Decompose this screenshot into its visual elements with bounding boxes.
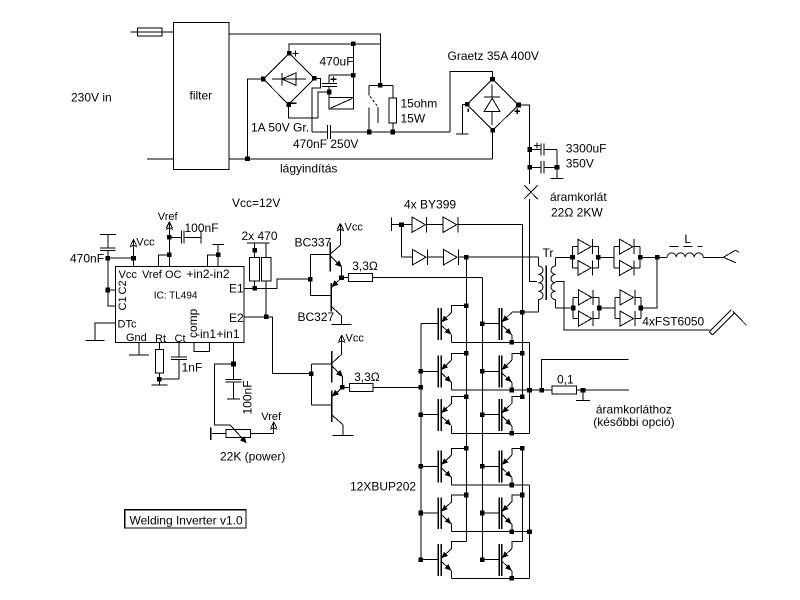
svg-text:2x 470: 2x 470	[242, 229, 278, 243]
node junction emitter rail row3 col2	[510, 431, 515, 436]
svg-text:Vcc=12V: Vcc=12V	[232, 196, 280, 210]
wire softstart to Graetz AC1	[450, 71, 493, 132]
ground Gnd pin	[129, 343, 149, 356]
svg-text:Vref: Vref	[261, 411, 282, 423]
label 2x 470	[242, 229, 278, 243]
capacitor C 1nF Ct	[171, 343, 187, 380]
label 15ohm	[401, 97, 438, 111]
wire D1-D2	[426, 224, 443, 226]
label 1nF	[182, 361, 203, 375]
label 1A 50V Gr.	[251, 120, 309, 134]
node junction gate bus col2 row1	[480, 321, 485, 326]
label Vcc driver2	[346, 333, 365, 345]
node junction col2 row4 collector	[520, 446, 525, 451]
bridge 1A inner diode	[272, 73, 306, 85]
pin label +in2-in2	[187, 267, 230, 281]
node junction col1 row4 collector	[464, 446, 469, 451]
svg-text:C2: C2	[117, 280, 129, 294]
node junction driver2 base	[309, 371, 314, 376]
resistor Rt	[155, 343, 163, 380]
node junction rect1 out	[638, 255, 643, 260]
node junction col2 row5 collector	[520, 493, 525, 498]
node junction Vcc decoupling	[131, 256, 136, 261]
svg-text:470uF: 470uF	[320, 54, 354, 68]
wire col1 row5 collector	[452, 495, 467, 502]
transistor IGBT Q17 BUP202 col2 row1	[482, 308, 512, 340]
diode pair FST6050 B	[614, 239, 640, 275]
wire BC337 base	[310, 254, 330, 256]
transistor Q3 collector	[332, 336, 342, 363]
wire col1 row3 collector	[452, 397, 467, 404]
svg-text:filter: filter	[190, 89, 213, 103]
wire E1 to driver1 base	[255, 279, 311, 288]
transformer T1 core	[545, 266, 547, 301]
transistor Q2 collector	[331, 306, 341, 324]
wire softstart rail right	[331, 131, 451, 133]
node junction coil top right	[351, 73, 356, 78]
node junction driver2 out	[340, 385, 345, 390]
wire col1 row1 collector	[452, 306, 467, 313]
diode pair FST6050 C	[573, 290, 599, 326]
wire emitter rail row1	[452, 341, 530, 343]
ground driver1	[332, 324, 352, 326]
transistor IGBT Q15 BUP202 col1 row5	[421, 497, 452, 529]
wire col2 row5 collector	[512, 495, 523, 502]
svg-text:12XBUP202: 12XBUP202	[350, 479, 416, 493]
svg-text:15W: 15W	[401, 112, 426, 126]
capacitor C 470nF decoupling	[100, 235, 116, 258]
wire emitter rail row4	[452, 484, 530, 486]
node Graetz bottom vertex	[491, 128, 496, 133]
inductor L	[667, 253, 703, 257]
wire emitter link upper	[529, 342, 531, 433]
capacitor C 470uF plates	[322, 84, 337, 87]
wire col2 row3 collector	[512, 397, 523, 404]
label Vcc=12V	[232, 196, 280, 210]
wire Rt to Ct	[159, 378, 179, 380]
node aux bridge top vertex	[287, 51, 292, 56]
node junction Vref step	[167, 252, 172, 257]
node junction gate bus col2 row4	[480, 464, 485, 469]
label 350V	[566, 157, 594, 171]
wire aux bridge AC1	[248, 79, 264, 159]
wire comp to -in1 jumper	[194, 343, 209, 352]
capacitor C 470nF 250V plates	[328, 125, 331, 139]
label Graetz minus tick	[467, 109, 469, 112]
wire emitter rail row6	[452, 577, 530, 579]
node junction gate bus col1 row4	[419, 464, 424, 469]
wire E2 to driver2 base	[266, 317, 311, 374]
capacitor C 3300uF lower	[530, 161, 557, 173]
svg-text:470nF 250V: 470nF 250V	[293, 137, 358, 151]
wire collector bus col2 lower	[521, 448, 523, 541]
wire emitter link lower	[529, 485, 531, 578]
svg-text:Ct: Ct	[175, 333, 186, 345]
wire emitter rail row3	[452, 432, 530, 434]
wire col1 row5 emitter	[451, 524, 453, 532]
capacitor C 100nF vref	[169, 230, 201, 243]
label 470uF plus	[331, 76, 337, 82]
svg-text:470nF: 470nF	[70, 251, 104, 265]
wire pot right to Vref	[251, 422, 278, 434]
pin label C2	[117, 280, 129, 294]
node junction driver1 out	[339, 275, 344, 280]
wire col2 row3 emitter	[511, 426, 513, 434]
bridge rectifier 1A 50V Gr. diamond	[263, 53, 314, 104]
terminal work clamp	[709, 310, 746, 335]
wire col2 row2 collector	[512, 353, 523, 360]
wire BC327 base	[310, 294, 331, 296]
label aramkorlathoz	[596, 402, 672, 416]
pin label Ct	[175, 333, 186, 345]
node junction Rt Ct	[157, 377, 162, 382]
svg-text:22Ω 2KW: 22Ω 2KW	[551, 205, 603, 219]
label IC: TL494	[154, 291, 198, 302]
transistor Q1 BC337 body	[329, 242, 331, 272]
wire emitter rail row2	[452, 389, 542, 391]
wire C2 C1 loop	[108, 258, 116, 306]
pin Vref OC step	[159, 255, 170, 267]
fuse F1	[138, 28, 174, 36]
ground shunt	[576, 390, 590, 401]
label 100nF	[185, 221, 219, 235]
node junction emitter link row5	[527, 529, 532, 534]
node junction primary bottom row1	[520, 310, 525, 315]
node junction shunt right	[581, 388, 586, 393]
ground Rt	[152, 379, 168, 385]
pin label OC	[165, 269, 182, 281]
pin Vcc stub with arrow	[130, 239, 137, 266]
wire cap minus to bridge minus	[318, 92, 329, 118]
terminal bar BY399 input	[392, 218, 402, 231]
svg-text:BC337: BC337	[295, 235, 332, 249]
svg-text:1nF: 1nF	[182, 361, 203, 375]
node junction gate bus col1 row6	[419, 557, 424, 562]
svg-text:4xFST6050: 4xFST6050	[642, 314, 704, 328]
relay coil K1 box	[329, 75, 353, 109]
svg-text:3,3Ω: 3,3Ω	[354, 370, 380, 384]
label kesobbi opcio	[593, 415, 674, 429]
node junction gate bus col2 row3	[480, 412, 485, 417]
pin label E1	[229, 282, 244, 296]
transistor IGBT Q22 BUP202 col2 row6	[482, 544, 512, 576]
node junction in2 step	[216, 252, 221, 257]
wire rect1 link	[598, 256, 614, 258]
node junction plus wire to coil	[351, 41, 356, 46]
node junction BY399 input	[399, 222, 404, 227]
label 3300uF plus	[534, 143, 540, 149]
wire col2 row2 emitter	[511, 383, 513, 391]
resistor 470 left of 2x470	[250, 250, 260, 288]
label Vcc driver1	[345, 221, 364, 233]
wire softstart rail left	[312, 131, 327, 133]
svg-text:350V: 350V	[566, 157, 594, 171]
potentiometer 22K body	[226, 430, 251, 438]
node Graetz right vertex	[516, 103, 521, 108]
label 230V in	[71, 91, 112, 105]
wire BC337b base	[311, 363, 331, 365]
wire L to torch	[703, 256, 723, 258]
label lagyinditas	[280, 162, 337, 176]
node junction cap1 3300uF	[527, 147, 532, 152]
diode D3 BY399	[402, 249, 428, 265]
label Vref arrow	[158, 211, 179, 223]
svg-text:DTc: DTc	[118, 319, 137, 331]
wire col2 row4 collector	[512, 448, 523, 455]
diode pair FST6050 D	[615, 290, 641, 326]
relay contact S1	[369, 85, 378, 132]
diode pair FST6050 A	[573, 239, 599, 275]
wire mains L lead	[131, 31, 138, 33]
wire col2 row1 collector	[511, 311, 513, 313]
svg-text:Vcc: Vcc	[136, 237, 155, 249]
pin label C1	[117, 296, 129, 310]
transistor Q3 emitter	[332, 366, 342, 387]
node junction relay top	[378, 83, 383, 88]
node junction rect1 mid	[596, 255, 601, 260]
label 4xFST6050	[642, 314, 704, 328]
bridge rectifier Graetz 35A 400V diamond	[467, 79, 518, 130]
node junction caps right	[555, 165, 560, 170]
wire aux bridge AC2 loop	[312, 78, 320, 132]
node junction relay contact bottom	[367, 130, 372, 135]
node junction col1 row2 collector	[464, 351, 469, 356]
wire BY399 row1 out	[458, 225, 523, 313]
node Graetz left vertex	[465, 102, 470, 107]
svg-text:OC: OC	[165, 269, 182, 281]
wire rect2 link	[599, 307, 615, 309]
wire col2 row1 emitter	[511, 335, 513, 343]
wire 2x470 top bar	[247, 243, 270, 257]
wire collector bus col2 upper	[521, 312, 523, 396]
current limiter X aramkorlat	[524, 185, 537, 257]
wire gate bus col1	[420, 324, 422, 560]
wire driver2 base bar	[310, 364, 312, 405]
svg-text:(későbbi opció): (későbbi opció)	[593, 415, 674, 429]
pin label DTc	[118, 319, 137, 331]
wire col1 row6 collector	[452, 542, 467, 549]
transistor IGBT Q13 BUP202 col1 row3	[421, 399, 452, 431]
svg-text:100nF: 100nF	[241, 380, 255, 414]
wire secondary bottom out	[556, 307, 574, 309]
label 100nF rotated	[241, 380, 255, 414]
capacitor C 3300uF upper	[530, 143, 557, 155]
resistor 470 right of 2x470	[262, 257, 271, 317]
svg-text:22K (power): 22K (power)	[220, 450, 285, 464]
ground caps 3300uF	[551, 178, 564, 180]
node junction rect2 mid	[597, 306, 602, 311]
svg-text:4x BY399: 4x BY399	[404, 197, 456, 211]
title box Welding Inverter v1.0	[125, 510, 246, 528]
label 470nF 250V	[293, 137, 358, 151]
wire col1 row4 collector	[452, 448, 467, 455]
wire E1 stub	[244, 287, 255, 289]
label 22K (power)	[220, 450, 285, 464]
transistor IGBT Q21 BUP202 col2 row5	[482, 497, 512, 529]
node junction E2	[264, 315, 269, 320]
node aux bridge left vertex	[261, 77, 266, 82]
node junction gate bus col1 row5	[419, 511, 424, 516]
pin in2 step	[208, 255, 219, 267]
ground Graetz left vertex	[456, 104, 469, 134]
svg-text:Rt: Rt	[155, 333, 166, 345]
node junction rect1 in	[570, 255, 575, 260]
wire Graetz plus down	[519, 105, 530, 184]
ground DTc	[86, 323, 116, 340]
node junction emitter rail row5 col2	[510, 529, 515, 534]
transistor IGBT Q16 BUP202 col1 row6	[421, 544, 452, 576]
resistor 3.3ohm driver1	[342, 273, 406, 281]
svg-text:E2: E2	[229, 311, 244, 325]
label Tr	[543, 246, 554, 260]
pin label E2	[229, 311, 244, 325]
svg-text:E1: E1	[229, 282, 244, 296]
wire col2 row6 emitter	[511, 571, 513, 579]
wire DC plus down to center tap	[530, 257, 538, 281]
terminal torch electrode fork	[723, 250, 739, 263]
node junction rect2 out	[639, 306, 644, 311]
pin label comp	[186, 308, 200, 338]
transistor Q2 emitter	[331, 278, 341, 288]
wire pot left	[211, 427, 226, 439]
transistor Q4 collector	[332, 415, 343, 435]
svg-text:IC: TL494: IC: TL494	[154, 291, 198, 302]
svg-text:Tr: Tr	[543, 246, 554, 260]
node Graetz top vertex	[490, 77, 495, 82]
svg-text:1A 50V Gr.: 1A 50V Gr.	[251, 120, 309, 134]
node junction driver2 to gate bus	[419, 385, 424, 390]
diode D4 BY399	[444, 249, 459, 265]
wire col2 row4 emitter	[511, 478, 513, 486]
node junction gate bus col1 row2	[419, 369, 424, 374]
svg-text:Vref: Vref	[142, 269, 163, 281]
node junction shunt left	[539, 388, 544, 393]
node junction col1 row5 collector	[464, 493, 469, 498]
wire rect2 up to common	[641, 257, 657, 308]
wire driver1 base bar	[309, 255, 311, 296]
wire cap 470uF top lead	[328, 75, 330, 84]
label BC337	[295, 235, 332, 249]
label 470uF	[320, 54, 354, 68]
wire coil top	[329, 74, 353, 76]
label Welding Inverter v1.0	[130, 513, 243, 527]
pin label -in1	[196, 327, 216, 341]
node junction AC bottom to aux bridge	[245, 156, 250, 161]
transistor IGBT Q19 BUP202 col2 row3	[482, 399, 512, 431]
filter box	[173, 23, 229, 170]
node junction Vref to 100nF	[167, 235, 172, 240]
node junction E1	[252, 286, 257, 291]
potentiometer 22K wiper arrow	[230, 425, 246, 442]
wire +in1 down	[233, 343, 235, 365]
diode D2 BY399	[443, 217, 458, 233]
wire E2 stub	[244, 316, 266, 318]
wire Graetz AC2 from filter	[492, 130, 494, 158]
label L	[684, 232, 691, 246]
pin label Vcc	[119, 269, 138, 281]
node junction emitter rail row6 col2	[510, 576, 515, 581]
wire col1 row6 emitter	[451, 571, 453, 579]
label 15W	[401, 112, 426, 126]
node junction cap minus	[327, 90, 332, 95]
svg-text:Vcc: Vcc	[345, 221, 364, 233]
resistor 0,1 shunt	[542, 386, 583, 394]
svg-text:15ohm: 15ohm	[401, 97, 438, 111]
node junction rect2 in	[571, 306, 576, 311]
svg-text:áramkorlát: áramkorlát	[550, 190, 607, 204]
node junction col1 row1 collector	[464, 303, 469, 308]
wire cap 470uF bottom lead	[328, 86, 330, 92]
pin label +in1	[217, 327, 240, 341]
wire secondary center tap out	[556, 282, 710, 330]
label 470nF	[70, 251, 104, 265]
node junction 470 left top	[252, 248, 257, 253]
svg-text:100nF: 100nF	[185, 221, 219, 235]
wire in2 to rail bar	[213, 244, 224, 254]
node junction gate bus col1 row3	[419, 412, 424, 417]
power Vcc arrow driver1	[337, 224, 344, 232]
wire collector bus col1	[465, 257, 467, 541]
node junction +in1	[231, 362, 236, 367]
wire col2 row5 emitter	[511, 524, 513, 532]
pin label Gnd	[126, 332, 147, 344]
label aux bridge plus	[293, 51, 299, 57]
svg-text:C1: C1	[117, 296, 129, 310]
node junction collector bus col1 top	[464, 255, 469, 260]
wire AC bottom from filter	[229, 158, 493, 160]
svg-text:L: L	[684, 232, 691, 246]
bridge Graetz inner diode	[484, 85, 500, 126]
label Graetz plus	[514, 108, 520, 114]
wire col1 row4 emitter	[451, 478, 453, 486]
wire gate bus col2	[405, 278, 482, 560]
label aramkorlat	[550, 190, 607, 204]
pin label Vref	[142, 269, 163, 281]
label 12XBUP202	[350, 479, 416, 493]
wire caps right common	[556, 150, 558, 178]
resistor 3.3ohm driver2	[342, 384, 421, 392]
label aux bridge minus	[291, 102, 296, 104]
node aux bridge right vertex	[312, 76, 317, 81]
pin label Rt	[155, 333, 166, 345]
wire col1 row2 collector	[452, 353, 467, 360]
svg-text:Vref: Vref	[158, 211, 179, 223]
svg-text:-in1: -in1	[196, 327, 216, 341]
wire mains N lead	[147, 158, 173, 160]
svg-text:Gnd: Gnd	[126, 332, 147, 344]
wire primary bottom	[512, 311, 539, 313]
transistor IGBT Q14 BUP202 col1 row4	[421, 451, 452, 483]
node junction emitter link row2	[527, 388, 532, 393]
node junction rect out common	[655, 255, 660, 260]
transistor Q1 emitter	[331, 257, 342, 278]
wire col1 row2 emitter	[451, 383, 453, 391]
transformer T1 primary	[538, 257, 543, 312]
svg-text:Vcc: Vcc	[346, 333, 365, 345]
label 0,1	[557, 372, 574, 386]
wire pickoff upper	[542, 360, 629, 391]
label 3300uF	[566, 141, 607, 155]
node junction cap2 3300uF	[527, 165, 532, 170]
label L dashes	[670, 245, 703, 247]
transistor Q1 collector	[331, 225, 341, 254]
label Graetz 35A 400V	[448, 49, 539, 63]
node junction emitter rail row2 col2	[510, 388, 515, 393]
node junction driver1 base	[308, 277, 313, 282]
transistor Q4 BC327 body	[331, 390, 333, 422]
svg-text:3,3Ω: 3,3Ω	[352, 259, 378, 273]
wire cap minus to coil	[328, 92, 330, 98]
